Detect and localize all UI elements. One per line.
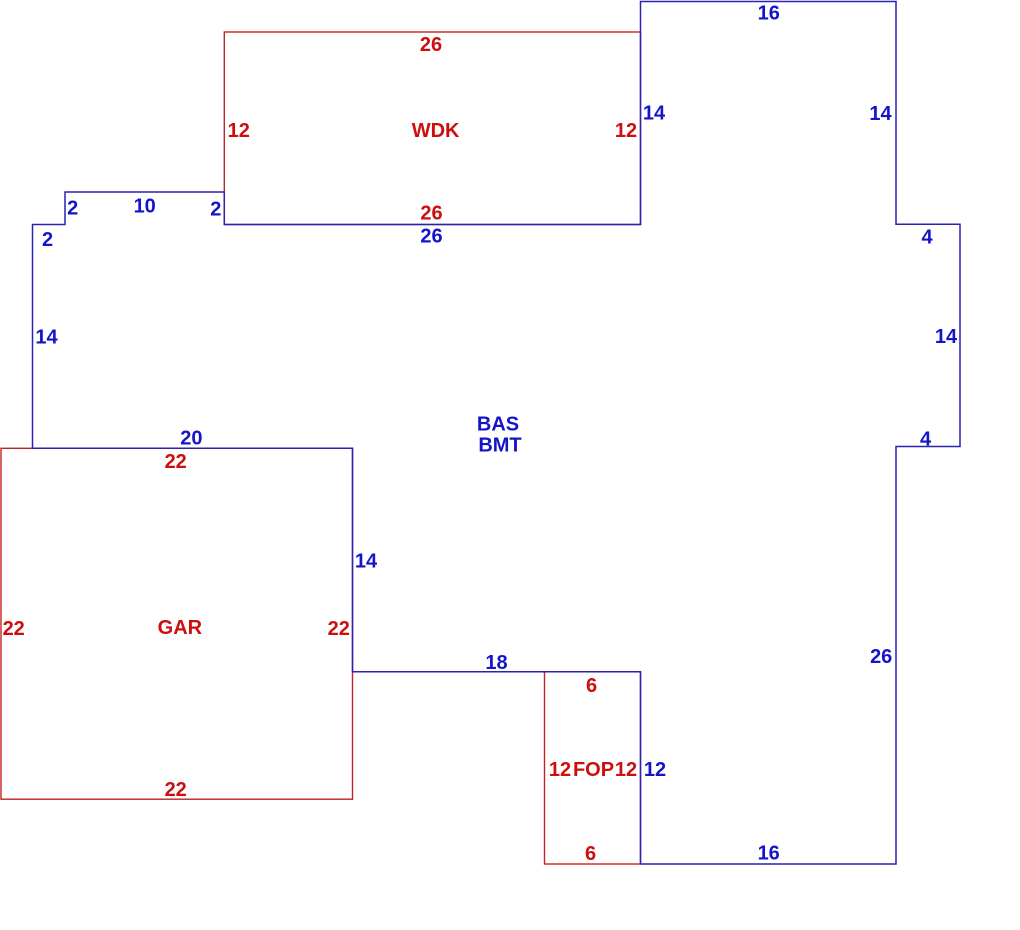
svg-text:12: 12 bbox=[615, 759, 637, 781]
svg-text:14: 14 bbox=[643, 103, 666, 125]
svg-text:20: 20 bbox=[180, 428, 202, 450]
svg-text:14: 14 bbox=[35, 327, 58, 349]
svg-text:16: 16 bbox=[758, 3, 780, 25]
svg-text:GAR: GAR bbox=[158, 617, 203, 639]
svg-text:26: 26 bbox=[420, 34, 442, 56]
svg-text:26: 26 bbox=[420, 226, 442, 248]
svg-text:12: 12 bbox=[644, 759, 666, 781]
svg-text:10: 10 bbox=[134, 196, 156, 218]
svg-text:16: 16 bbox=[758, 843, 780, 865]
svg-text:22: 22 bbox=[165, 451, 187, 473]
svg-text:22: 22 bbox=[165, 779, 187, 801]
svg-text:BAS: BAS bbox=[477, 414, 519, 436]
svg-text:12: 12 bbox=[615, 120, 637, 142]
svg-text:6: 6 bbox=[586, 675, 597, 697]
svg-text:14: 14 bbox=[935, 326, 958, 348]
svg-text:22: 22 bbox=[3, 618, 25, 640]
svg-text:26: 26 bbox=[420, 203, 442, 225]
svg-text:18: 18 bbox=[485, 652, 507, 674]
svg-text:BMT: BMT bbox=[478, 435, 521, 457]
svg-text:12: 12 bbox=[228, 120, 250, 142]
svg-text:12: 12 bbox=[549, 759, 571, 781]
svg-text:2: 2 bbox=[67, 198, 78, 220]
svg-text:14: 14 bbox=[355, 551, 378, 573]
svg-text:FOP: FOP bbox=[573, 759, 614, 781]
svg-text:26: 26 bbox=[870, 646, 892, 668]
svg-text:22: 22 bbox=[328, 618, 350, 640]
svg-text:6: 6 bbox=[585, 843, 596, 865]
svg-text:14: 14 bbox=[869, 103, 892, 125]
svg-text:WDK: WDK bbox=[412, 120, 460, 142]
svg-text:4: 4 bbox=[920, 429, 932, 451]
svg-text:2: 2 bbox=[42, 229, 53, 251]
svg-text:4: 4 bbox=[921, 227, 933, 249]
svg-text:2: 2 bbox=[210, 199, 221, 221]
